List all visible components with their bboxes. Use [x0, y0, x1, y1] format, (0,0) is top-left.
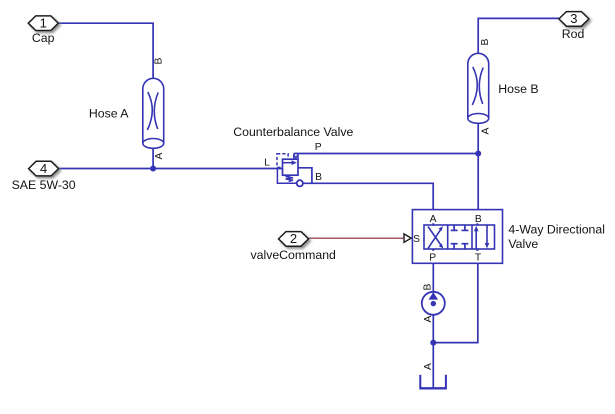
svg-text:A: A — [154, 152, 165, 159]
svg-text:B: B — [475, 214, 482, 225]
svg-text:Valve: Valve — [508, 237, 538, 251]
svg-text:S: S — [413, 234, 420, 245]
svg-text:Hose B: Hose B — [498, 82, 538, 96]
svg-text:P: P — [315, 142, 322, 153]
svg-text:B: B — [423, 284, 434, 291]
svg-text:P: P — [429, 252, 436, 263]
svg-text:Hose A: Hose A — [89, 106, 129, 120]
svg-text:B: B — [315, 172, 322, 183]
svg-text:Counterbalance Valve: Counterbalance Valve — [233, 125, 353, 139]
svg-text:T: T — [475, 252, 482, 263]
svg-text:B: B — [480, 38, 491, 45]
svg-text:B: B — [153, 57, 164, 64]
svg-text:A: A — [423, 315, 434, 322]
svg-text:4-Way Directional: 4-Way Directional — [508, 223, 605, 237]
svg-text:valveCommand: valveCommand — [250, 248, 336, 262]
svg-text:1: 1 — [40, 16, 47, 31]
svg-text:SAE 5W-30: SAE 5W-30 — [12, 178, 76, 192]
svg-text:3: 3 — [570, 11, 577, 26]
svg-text:Rod: Rod — [562, 27, 585, 41]
svg-text:4: 4 — [40, 161, 47, 176]
svg-text:Cap: Cap — [32, 31, 55, 45]
svg-text:2: 2 — [290, 231, 297, 246]
svg-text:A: A — [423, 363, 434, 370]
svg-text:A: A — [480, 127, 491, 134]
svg-text:A: A — [430, 214, 437, 225]
svg-text:L: L — [264, 157, 270, 168]
